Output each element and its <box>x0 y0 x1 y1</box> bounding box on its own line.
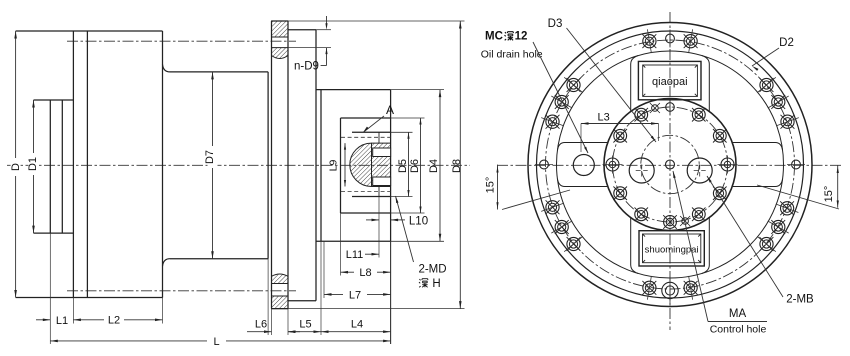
svg-text:L10: L10 <box>409 215 428 227</box>
svg-text:H: H <box>432 278 440 290</box>
svg-text:D3: D3 <box>548 18 563 30</box>
svg-text:L4: L4 <box>351 319 363 331</box>
svg-text:D1: D1 <box>27 157 39 171</box>
svg-text:L11: L11 <box>346 249 364 261</box>
svg-text:A: A <box>386 103 394 117</box>
svg-text:D6: D6 <box>409 159 421 173</box>
svg-text:L6: L6 <box>255 319 267 331</box>
svg-text:15°: 15° <box>485 177 497 194</box>
svg-text:D4: D4 <box>428 159 440 173</box>
svg-text:L8: L8 <box>359 267 371 279</box>
svg-text:n-D9: n-D9 <box>294 61 319 73</box>
svg-text:L5: L5 <box>299 319 311 331</box>
svg-text:D8: D8 <box>451 159 463 173</box>
svg-text:L: L <box>213 336 219 348</box>
svg-text:D5: D5 <box>397 159 409 173</box>
svg-text:L3: L3 <box>597 112 609 124</box>
svg-text:L2: L2 <box>108 314 120 326</box>
svg-text:Oil drain hole: Oil drain hole <box>481 49 543 61</box>
svg-text:L9: L9 <box>328 160 340 172</box>
svg-text:12: 12 <box>515 31 528 43</box>
svg-text:2-MB: 2-MB <box>786 294 814 306</box>
svg-text:MC: MC <box>485 31 503 43</box>
svg-text:D2: D2 <box>779 37 794 49</box>
svg-text:qiaopai: qiaopai <box>652 76 687 88</box>
svg-text:2-MD: 2-MD <box>418 264 446 276</box>
svg-text:Control hole: Control hole <box>710 324 767 336</box>
svg-text:15°: 15° <box>823 186 835 203</box>
svg-text:MA: MA <box>729 308 747 320</box>
svg-text:D7: D7 <box>204 150 216 164</box>
svg-text:D: D <box>10 163 22 171</box>
svg-text:L1: L1 <box>56 315 68 327</box>
svg-text:L7: L7 <box>349 289 361 301</box>
